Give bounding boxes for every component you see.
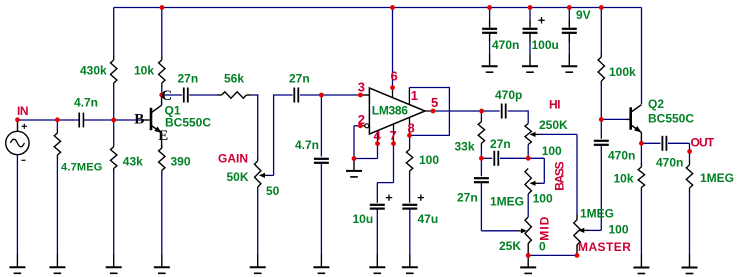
svg-text:250K: 250K <box>539 118 568 132</box>
svg-text:100: 100 <box>419 153 439 167</box>
svg-text:100k: 100k <box>609 65 636 79</box>
svg-text:10u: 10u <box>353 212 374 226</box>
svg-text:50: 50 <box>266 184 280 198</box>
svg-text:B: B <box>134 112 144 128</box>
svg-text:C: C <box>161 88 172 104</box>
svg-text:100u: 100u <box>532 38 559 52</box>
svg-text:4.7n: 4.7n <box>295 138 319 152</box>
svg-text:100: 100 <box>533 192 553 206</box>
svg-text:27n: 27n <box>289 72 310 86</box>
svg-text:4: 4 <box>374 128 382 143</box>
svg-text:GAIN: GAIN <box>218 152 248 166</box>
svg-text:100: 100 <box>542 144 562 158</box>
svg-text:4.7MEG: 4.7MEG <box>61 162 103 174</box>
svg-text:50K: 50K <box>227 170 249 184</box>
svg-text:1MEG: 1MEG <box>580 207 614 221</box>
svg-text:56k: 56k <box>224 72 244 86</box>
svg-text:8: 8 <box>408 121 415 136</box>
svg-text:6: 6 <box>391 69 398 84</box>
svg-text:470n: 470n <box>492 38 519 52</box>
svg-text:4.7n: 4.7n <box>74 96 98 110</box>
svg-text:Q2: Q2 <box>648 97 664 111</box>
svg-text:1: 1 <box>411 88 418 103</box>
svg-text:3: 3 <box>358 80 365 95</box>
svg-text:E: E <box>158 128 168 144</box>
svg-text:BC550C: BC550C <box>165 116 211 130</box>
svg-text:47u: 47u <box>418 212 439 226</box>
svg-text:HI: HI <box>549 98 560 112</box>
svg-text:27n: 27n <box>178 72 199 86</box>
svg-text:470n: 470n <box>608 149 635 163</box>
svg-text:7: 7 <box>390 128 397 143</box>
svg-text:1MEG: 1MEG <box>700 171 734 185</box>
svg-text:43k: 43k <box>123 155 143 169</box>
svg-text:470p: 470p <box>495 88 522 102</box>
svg-text:MID: MID <box>538 216 552 241</box>
svg-text:5: 5 <box>431 95 438 110</box>
svg-text:390: 390 <box>171 155 191 169</box>
svg-text:LM386: LM386 <box>372 104 408 118</box>
svg-text:100: 100 <box>609 223 629 237</box>
svg-text:9V: 9V <box>576 8 591 22</box>
svg-text:BASS: BASS <box>553 161 567 190</box>
svg-text:2: 2 <box>358 112 365 127</box>
svg-text:IN: IN <box>17 104 28 118</box>
svg-text:27n: 27n <box>490 137 511 151</box>
svg-text:OUT: OUT <box>691 136 715 150</box>
svg-text:33k: 33k <box>455 140 475 154</box>
svg-text:1MEG: 1MEG <box>490 195 524 209</box>
svg-text:MASTER: MASTER <box>578 240 631 254</box>
svg-text:430k: 430k <box>80 64 107 78</box>
svg-text:BC550C: BC550C <box>648 112 694 126</box>
svg-text:27n: 27n <box>457 191 478 205</box>
svg-text:10k: 10k <box>614 172 634 186</box>
svg-text:10k: 10k <box>134 64 154 78</box>
svg-text:470n: 470n <box>656 156 683 170</box>
svg-text:25K: 25K <box>499 239 521 253</box>
